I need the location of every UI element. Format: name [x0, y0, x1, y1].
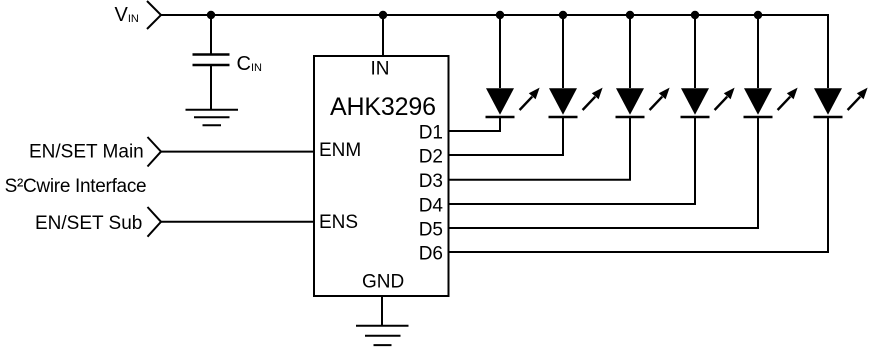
svg-text:D3: D3 — [419, 171, 443, 192]
wire: ENM input — [161, 151, 314, 153]
LED D2 — [549, 15, 603, 117]
input port ENM chevron — [148, 137, 162, 167]
node junction at IN pin — [379, 11, 387, 19]
svg-text:ENM: ENM — [319, 140, 361, 161]
node junction LED5 — [754, 11, 762, 19]
wire: ENS input — [161, 221, 314, 223]
svg-text:ENS: ENS — [319, 212, 358, 233]
svg-text:EN/SET Main: EN/SET Main — [29, 141, 144, 162]
wire: CIN to ground — [210, 65, 212, 110]
LED D3 — [616, 15, 670, 117]
wire: VIN top rail — [161, 14, 828, 16]
wire: rail to IN pin — [382, 15, 384, 56]
wire: LED5 cathode to D5 — [449, 117, 759, 228]
svg-text:D2: D2 — [419, 147, 443, 168]
ground (below GND pin) — [356, 326, 409, 345]
node junction LED1 — [496, 11, 504, 19]
svg-text:D4: D4 — [419, 196, 444, 217]
wire: LED1 cathode to D1 — [449, 117, 501, 131]
svg-text:EN/SET Sub: EN/SET Sub — [35, 213, 142, 234]
LED D6 — [814, 14, 868, 117]
capacitor CIN — [193, 55, 230, 66]
wire: LED2 cathode to D2 — [449, 117, 564, 155]
input port VIN chevron — [147, 1, 161, 29]
node junction LED3 — [626, 11, 634, 19]
op IC U1 AHK3296 box — [314, 56, 449, 296]
LED D4 — [681, 15, 735, 117]
svg-text:GND: GND — [362, 272, 404, 293]
ground (below CIN) — [186, 110, 239, 126]
wire: LED4 cathode to D4 — [449, 117, 696, 204]
wire: rail to CIN top plate — [210, 15, 212, 54]
input port ENS chevron — [148, 207, 162, 237]
svg-text:D6: D6 — [419, 244, 443, 265]
svg-text:D1: D1 — [419, 123, 443, 144]
node junction at CIN — [207, 11, 215, 19]
wire: LED3 cathode to D3 — [449, 117, 631, 180]
LED D1 — [486, 15, 540, 117]
svg-text:S²Cwire Interface: S²Cwire Interface — [5, 176, 147, 197]
svg-text:D5: D5 — [419, 220, 443, 241]
node junction LED4 — [691, 11, 699, 19]
svg-text:IN: IN — [371, 58, 390, 79]
svg-text:AHK3296: AHK3296 — [330, 93, 436, 121]
wire: LED6 cathode to D6 — [449, 117, 829, 252]
LED D5 — [744, 15, 798, 117]
wire: GND pin down — [381, 296, 383, 326]
node junction LED2 — [559, 11, 567, 19]
